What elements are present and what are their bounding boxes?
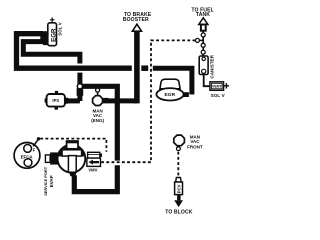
- MAN VAC FRONT connector circle: [177, 146, 179, 147]
- svg-text:FRONT: FRONT: [187, 144, 203, 149]
- EGR SOL V flange/ports: [40, 36, 44, 42]
- svg-text:VMV: VMV: [88, 168, 97, 173]
- port MAN VAC FRONT octagon: [174, 135, 185, 146]
- label TO BRAKE BOOSTER: [123, 12, 152, 23]
- plus terminal VENT: [224, 83, 229, 88]
- MAN VAC (ENG) connector circle: [97, 92, 99, 96]
- wire V1 lower and EVAP service port return: [74, 165, 117, 191]
- svg-text:EFCA: EFCA: [21, 154, 34, 159]
- throttle body T bar: [62, 150, 82, 156]
- label TO FUEL TANK: [191, 7, 213, 18]
- svg-text:IPS: IPS: [52, 98, 59, 103]
- wire hose1 bar B middle segment between brake line and dashed line: [141, 65, 148, 71]
- sensor IPS body: [47, 94, 65, 107]
- VMV right nub: [100, 154, 102, 157]
- fuel tank line: [202, 31, 204, 56]
- EFCA bottom port circle: [24, 159, 32, 167]
- svg-text:SOL V: SOL V: [57, 22, 62, 36]
- wire hose2 vertical V0 below bar B crossing: [77, 73, 82, 101]
- valve PCV body: [175, 182, 183, 195]
- svg-text:CANISTER: CANISTER: [209, 54, 214, 78]
- IPS left nub: [45, 98, 47, 102]
- svg-text:EGR: EGR: [50, 28, 57, 42]
- wire hose1 bar B right segment to EGR valve drop: [153, 68, 192, 94]
- svg-text:EGR: EGR: [164, 92, 175, 98]
- canister bottom port circle: [202, 69, 206, 73]
- label MAN VAC FRONT: [187, 134, 203, 149]
- wire IPS hose: [67, 98, 80, 103]
- throttle body T stem: [68, 156, 76, 173]
- plus terminal above EGR SOL V: [50, 17, 55, 22]
- wire H1 junction run to VMV drop (V1 upper): [80, 86, 117, 160]
- junction collar below node A: [77, 88, 84, 96]
- wire hose2 EGR-SOL-V lower port staircase run: [23, 42, 80, 64]
- solenoid VMV upper box: [88, 152, 100, 158]
- EFCA top port circle: [24, 145, 32, 153]
- connector circle dashed tee: [195, 38, 199, 42]
- svg-text:BOOSTER: BOOSTER: [123, 17, 149, 23]
- dashed line EFCA to vertical trunk: [40, 139, 106, 152]
- arrow to block: [177, 195, 181, 201]
- svg-text:F: F: [33, 148, 36, 153]
- valve EGR dome: [160, 79, 180, 89]
- tee stub from dashed line to fuel line: [198, 39, 204, 41]
- svg-text:TO BLOCK: TO BLOCK: [165, 209, 193, 215]
- wire hose1 EGR-SOL-V upper port to manifold run (top bar, left vertical, long bar B left segment): [17, 34, 132, 68]
- solenoid EGR SOL V body: [48, 23, 57, 46]
- fuel tank arrow shaft: [201, 25, 206, 31]
- EFCA lead line and node dot: [33, 139, 38, 146]
- svg-text:EVAP: EVAP: [49, 175, 54, 187]
- wire H2 MAN-VAC(ENG) to brake booster line: [103, 98, 137, 103]
- dashed line fuel tee to canister column corner and down to VMV return: [101, 40, 195, 162]
- svg-text:PCV: PCV: [176, 184, 181, 193]
- svg-text:(ENG): (ENG): [91, 118, 104, 123]
- arrow to brake booster: [132, 24, 141, 31]
- MAN VAC (ENG) right nipple: [103, 98, 109, 103]
- solenoid VENT SOL V box: [210, 82, 224, 91]
- IPS top tab: [55, 91, 58, 94]
- svg-text:VENT: VENT: [212, 85, 223, 89]
- solenoid VMV lower box with arrow: [87, 158, 101, 166]
- arrow to fuel tank: [199, 18, 208, 25]
- canister top port circle: [202, 57, 205, 60]
- throttle bottom funnel: [69, 172, 76, 176]
- label MAN VAC (ENG): [91, 108, 104, 123]
- node A junction circle: [77, 84, 82, 89]
- connector circle fuel line 2: [201, 43, 205, 47]
- port MAN VAC (ENG) hexagon: [93, 96, 103, 106]
- svg-text:SERVICE PORT: SERVICE PORT: [43, 166, 48, 196]
- IPS bottom tab: [55, 107, 58, 110]
- connector circle fuel line 3: [201, 50, 205, 54]
- throttle body circle: [58, 145, 86, 173]
- connector circle fuel line 1: [201, 33, 205, 37]
- module EFCA circle: [14, 143, 40, 169]
- IPS right nipple: [65, 98, 69, 104]
- EVAP service port fitting: [45, 155, 50, 163]
- dashed line to PCV: [177, 152, 179, 178]
- EGR valve right nipple: [183, 92, 189, 97]
- valve EGR body ellipse: [156, 88, 183, 100]
- canister body: [199, 56, 208, 75]
- svg-text:SOL V: SOL V: [211, 93, 226, 98]
- canister stub to vent solenoid: [204, 75, 210, 87]
- PCV top collar: [176, 178, 182, 183]
- throttle body tower: [67, 141, 78, 149]
- wire V2 brake booster vertical: [134, 31, 140, 104]
